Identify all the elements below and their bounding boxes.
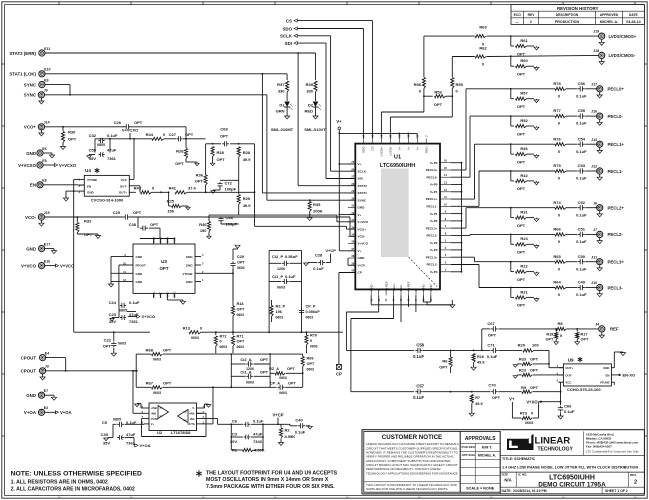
svg-text:DESCRIPTION: DESCRIPTION	[556, 13, 579, 17]
svg-text:LVCM+: LVCM+	[380, 146, 384, 156]
ground E17	[45, 248, 54, 250]
svg-text:0.1uF: 0.1uF	[313, 266, 324, 271]
capacitor C49	[566, 287, 577, 289]
capacitor CP_A	[278, 386, 280, 388]
svg-text:V+VCO: V+VCO	[358, 220, 369, 224]
ground U2 V- pin	[202, 407, 205, 409]
svg-text:OPT: OPT	[307, 362, 315, 366]
svg-text:GND: GND	[424, 146, 428, 154]
svg-text:R31: R31	[520, 210, 528, 215]
svg-text:0.56uF: 0.56uF	[285, 254, 298, 259]
svg-text:47uF: 47uF	[107, 148, 117, 153]
net V+VCXO stub	[43, 164, 55, 166]
svg-text:C55: C55	[578, 108, 586, 113]
svg-text:LVDS/CMOS+: LVDS/CMOS+	[609, 34, 637, 39]
date row	[500, 486, 644, 488]
svg-text:R25: R25	[167, 199, 175, 204]
svg-text:U9: U9	[568, 357, 574, 362]
wire U1 bottom GND	[370, 295, 372, 304]
svg-text:GND: GND	[136, 272, 144, 276]
ground U1 bottom	[451, 300, 453, 305]
svg-text:V+OA: V+OA	[140, 443, 151, 448]
resistor R9	[522, 390, 532, 393]
svg-text:0805: 0805	[97, 143, 105, 147]
svg-text:V+XO: V+XO	[526, 399, 538, 404]
wire V-CP stub	[348, 264, 355, 266]
LED D2 RED	[313, 102, 319, 108]
svg-text:R6: R6	[442, 358, 448, 363]
svg-text:OPT: OPT	[159, 266, 168, 271]
svg-text:J17: J17	[591, 82, 597, 86]
svg-text:47uF: 47uF	[253, 431, 263, 436]
svg-text:PECL0-: PECL0-	[426, 175, 437, 179]
svg-text:N/A: N/A	[504, 477, 511, 482]
svg-text:LTC Confidential-For Customer: LTC Confidential-For Customer Use Only	[586, 449, 639, 453]
svg-text:VCO-: VCO-	[25, 215, 37, 220]
wire Ci_P column left	[268, 250, 270, 332]
svg-text:SDI: SDI	[358, 177, 363, 181]
footprint note star	[198, 470, 200, 473]
ground J9	[40, 98, 42, 101]
svg-text:OPT: OPT	[287, 367, 295, 371]
capacitor CP_P	[301, 308, 303, 310]
svg-text:PECL1+: PECL1+	[608, 142, 625, 147]
svg-text:SML-010MT: SML-010MT	[271, 127, 294, 132]
svg-text:APPROVED: APPROVED	[600, 13, 619, 17]
resistor R35	[308, 202, 311, 212]
svg-text:V+: V+	[509, 397, 515, 402]
svg-text:CVCSO-914-1000: CVCSO-914-1000	[91, 198, 124, 203]
svg-text:V+VCO: V+VCO	[142, 314, 156, 319]
svg-text:C22: C22	[104, 338, 112, 343]
svg-text:Ci2_P: Ci2_P	[272, 254, 283, 259]
svg-text:Ci2_A: Ci2_A	[240, 357, 251, 362]
svg-text:0603: 0603	[191, 336, 199, 340]
svg-text:C24: C24	[109, 300, 117, 305]
svg-text:0.1uF: 0.1uF	[564, 409, 575, 414]
svg-text:V+: V+	[407, 146, 411, 150]
resistor R32	[76, 216, 78, 218]
svg-text:R32: R32	[84, 219, 92, 224]
svg-text:7361: 7361	[129, 319, 139, 324]
svg-text:U2: U2	[157, 430, 163, 435]
capacitor C55	[566, 115, 577, 117]
resistor R36	[204, 175, 207, 185]
ground R60	[536, 66, 538, 67]
ground C29 top	[235, 245, 240, 248]
capacitor C66	[560, 402, 562, 406]
svg-text:GND: GND	[186, 264, 194, 268]
svg-text:100pF: 100pF	[226, 221, 238, 226]
svg-text:IC NO.: IC NO.	[518, 473, 527, 477]
svg-text:0: 0	[531, 411, 533, 416]
svg-text:V+: V+	[398, 146, 402, 150]
svg-text:RZ_P: RZ_P	[276, 305, 286, 309]
wire OUT+ row	[152, 191, 169, 193]
ground C72	[212, 189, 214, 192]
resistor R73	[511, 406, 513, 419]
svg-text:V+P3: V+P3	[430, 248, 438, 252]
svg-text:37.4: 37.4	[188, 186, 197, 191]
ground E7	[45, 394, 54, 396]
resistor R41	[175, 191, 187, 194]
svg-text:1206: 1206	[277, 267, 285, 271]
svg-text:APP ENG.: APP ENG.	[462, 453, 476, 457]
svg-text:0603: 0603	[306, 316, 314, 320]
svg-text:0.1uF: 0.1uF	[107, 133, 118, 138]
svg-text:R37: R37	[277, 82, 285, 87]
svg-text:03/28/2014, 01:19 PM: 03/28/2014, 01:19 PM	[513, 489, 547, 493]
svg-text:EN: EN	[87, 184, 91, 188]
resistor R2	[280, 424, 282, 427]
wire R62 row J18	[452, 56, 474, 58]
U2 right pins	[197, 407, 202, 409]
wire C57 row	[423, 391, 451, 393]
resistor R8	[556, 327, 566, 330]
svg-text:V+: V+	[358, 249, 362, 253]
svg-text:R9: R9	[521, 385, 527, 390]
wire C68 row	[209, 214, 239, 216]
resistor R69	[301, 357, 304, 367]
ground D1	[286, 112, 288, 116]
svg-text:J6: J6	[593, 201, 597, 205]
svg-text:OPT: OPT	[163, 381, 172, 386]
ground J15	[40, 220, 42, 223]
svg-text:R44: R44	[146, 132, 154, 137]
capacitor C29	[232, 268, 234, 300]
svg-text:0.1uF: 0.1uF	[576, 176, 587, 181]
svg-text:R19: R19	[546, 333, 553, 337]
svg-text:196: 196	[276, 310, 282, 314]
svg-text:C52: C52	[578, 200, 586, 205]
ground R21	[536, 298, 538, 299]
svg-text:R60: R60	[520, 58, 528, 63]
ground C28	[308, 262, 311, 264]
svg-text:J14: J14	[44, 121, 50, 125]
svg-text:330: 330	[278, 89, 285, 94]
svg-text:SYNC: SYNC	[24, 82, 37, 87]
svg-text:OPT: OPT	[581, 338, 589, 342]
svg-text:R35: R35	[313, 202, 321, 207]
svg-text:R26: R26	[176, 149, 184, 154]
svg-text:4.99K: 4.99K	[285, 434, 296, 439]
svg-text:R74: R74	[553, 200, 561, 205]
svg-text:J9: J9	[44, 89, 48, 93]
svg-text:OPT: OPT	[517, 186, 526, 191]
svg-text:V+VCXO: V+VCXO	[18, 163, 37, 168]
svg-text:0.1uF: 0.1uF	[129, 300, 140, 305]
svg-text:0603: 0603	[220, 345, 228, 349]
svg-text:SHEET 1 OF 2: SHEET 1 OF 2	[605, 489, 628, 493]
resistor R56	[422, 78, 425, 89]
svg-text:OPT: OPT	[545, 338, 553, 342]
svg-text:VTUNE: VTUNE	[87, 178, 97, 182]
svg-text:R53: R53	[434, 89, 442, 94]
svg-text:GND: GND	[186, 255, 194, 259]
svg-text:PECL1-: PECL1-	[608, 169, 624, 174]
svg-text:SIZE: SIZE	[502, 473, 509, 477]
wire U3 VTUNE	[201, 272, 233, 274]
wire VTUNE column	[73, 300, 75, 332]
wire Ci_P column right	[301, 250, 303, 332]
svg-text:REV: REV	[528, 13, 536, 17]
svg-text:V+P0: V+P0	[430, 183, 438, 187]
svg-text:U3: U3	[161, 259, 167, 264]
svg-text:GND: GND	[429, 284, 433, 292]
svg-text:C38: C38	[129, 222, 137, 227]
svg-text:R62: R62	[479, 46, 487, 51]
svg-text:GND: GND	[26, 151, 36, 156]
capacitor C38	[137, 217, 139, 228]
svg-text:R33: R33	[519, 357, 527, 362]
connector J16 PECL0-	[597, 113, 603, 119]
net V+CP	[330, 254, 332, 263]
svg-text:OPT: OPT	[134, 120, 143, 125]
svg-text:SDO: SDO	[362, 146, 366, 153]
wire bottom gnd2	[422, 295, 424, 302]
svg-text:PECL1-: PECL1-	[426, 205, 437, 209]
resistor R68	[152, 353, 163, 356]
svg-text:C40: C40	[295, 418, 303, 423]
svg-text:Fax: (408)434-0507: Fax: (408)434-0507	[586, 444, 612, 448]
wire D1 branch	[286, 74, 288, 80]
svg-text:V-: V-	[192, 406, 195, 410]
svg-text:PECL2+: PECL2+	[426, 226, 438, 230]
ground J13	[599, 147, 601, 150]
svg-text:OPT: OPT	[517, 223, 526, 228]
svg-text:EN: EN	[605, 373, 609, 377]
svg-text:0603: 0603	[310, 345, 318, 349]
svg-text:PECL0-: PECL0-	[608, 114, 624, 119]
svg-text:R42: R42	[520, 173, 528, 178]
svg-text:R70: R70	[310, 334, 317, 338]
svg-text:V+CP: V+CP	[325, 248, 336, 253]
svg-text:SDO: SDO	[282, 26, 292, 31]
svg-text:STAT2: STAT2	[358, 184, 368, 188]
svg-text:E17: E17	[44, 242, 50, 246]
ground C30	[108, 437, 113, 439]
svg-text:CS: CS	[371, 147, 375, 151]
svg-text:C67: C67	[487, 321, 495, 326]
svg-text:E11: E11	[44, 47, 50, 51]
svg-text:0.1uF: 0.1uF	[576, 266, 587, 271]
svg-text:GND: GND	[87, 191, 95, 195]
svg-text:0.1uF: 0.1uF	[295, 429, 306, 434]
svg-text:J7: J7	[593, 228, 597, 232]
connector J11 PECL3+	[597, 259, 603, 265]
resistor R70	[305, 335, 308, 345]
svg-text:100: 100	[532, 343, 539, 348]
connector J17 PECL0+	[597, 86, 603, 92]
svg-text:GND: GND	[186, 280, 194, 284]
svg-text:LVCM-: LVCM-	[389, 147, 393, 156]
wire U2 OUTA to R67 row	[202, 423, 214, 425]
resistor RZ_P	[270, 306, 273, 317]
ground J18	[601, 59, 603, 62]
svg-text:V+P1: V+P1	[430, 190, 438, 194]
wire LVCM- drop	[451, 96, 453, 117]
svg-text:GND: GND	[166, 237, 170, 243]
ground C66	[560, 415, 562, 416]
resistor R18	[231, 306, 234, 316]
resistor R24 shunt	[510, 234, 512, 244]
wire STAT2 row	[45, 52, 316, 54]
svg-text:EN: EN	[30, 183, 36, 188]
svg-text:RZ_A: RZ_A	[269, 367, 279, 371]
U3 bottom pins	[153, 293, 155, 298]
op-amp U1 LTC6950IUHH body	[355, 144, 440, 290]
svg-text:f+: f+	[377, 288, 381, 291]
svg-text:REF-: REF-	[399, 284, 403, 291]
svg-text:R66: R66	[553, 227, 561, 232]
svg-text:C68: C68	[226, 215, 234, 220]
svg-text:GND: GND	[358, 256, 366, 260]
svg-text:R68: R68	[146, 347, 154, 352]
svg-text:C29: C29	[237, 255, 244, 259]
svg-text:C59: C59	[89, 148, 97, 153]
wire CS	[297, 20, 372, 22]
svg-text:OPT: OPT	[195, 179, 204, 184]
svg-text:C51: C51	[578, 227, 586, 232]
resistor R29	[238, 180, 240, 194]
svg-text:C26: C26	[114, 120, 122, 125]
svg-text:V+P0: V+P0	[430, 161, 438, 165]
svg-text:SYNC: SYNC	[358, 198, 367, 202]
svg-text:OUT+: OUT+	[119, 191, 127, 195]
svg-text:OPT: OPT	[185, 132, 194, 137]
wire U3 left gnds	[111, 256, 127, 258]
wire E4 to J3 row	[46, 357, 66, 359]
resistor R63	[475, 35, 486, 38]
capacitor C50	[566, 261, 577, 263]
svg-text:R16: R16	[477, 355, 484, 359]
resistor R65	[511, 261, 555, 263]
svg-text:J13: J13	[591, 138, 597, 142]
svg-text:J3: J3	[45, 365, 49, 369]
ground E6	[43, 152, 52, 154]
title row	[500, 454, 644, 456]
svg-text:E7: E7	[44, 389, 48, 393]
svg-text:E9: E9	[44, 78, 48, 82]
svg-text:-INB: -INB	[151, 412, 156, 416]
ground R24	[536, 245, 538, 246]
resistor R38	[211, 147, 214, 157]
svg-text:R28: R28	[243, 150, 251, 155]
svg-text:0603: 0603	[276, 316, 284, 320]
svg-text:R56: R56	[414, 82, 422, 87]
wire V+ rail	[338, 130, 340, 251]
resistor R39	[314, 81, 317, 92]
wire PECL2- from pin	[451, 234, 470, 236]
svg-text:EN-XO: EN-XO	[623, 373, 636, 378]
svg-text:KIM T.: KIM T.	[482, 446, 493, 450]
svg-text:R21: R21	[520, 289, 528, 294]
ground R19	[555, 340, 557, 343]
svg-text:SCALE = NONE: SCALE = NONE	[466, 486, 495, 490]
svg-text:MICHEL A.: MICHEL A.	[478, 454, 496, 458]
wire f+ to C58 row	[378, 295, 380, 312]
svg-text:0.1uF: 0.1uF	[576, 239, 587, 244]
resistor R42 shunt	[510, 171, 512, 181]
svg-text:OPT: OPT	[260, 357, 269, 362]
svg-text:V-CP: V-CP	[358, 263, 365, 267]
svg-text:V+CP: V+CP	[272, 412, 283, 417]
svg-text:R75: R75	[553, 163, 561, 168]
svg-text:200K: 200K	[313, 209, 323, 214]
resistor R60 shunt	[510, 56, 512, 66]
svg-text:J16: J16	[591, 110, 597, 114]
svg-text:V+VCXO: V+VCXO	[122, 128, 138, 133]
resistor R74	[511, 207, 555, 209]
U1 right pin stubs	[440, 162, 451, 164]
svg-text:R20: R20	[518, 343, 526, 348]
svg-text:VTUNE: VTUNE	[182, 272, 192, 276]
ground C22	[113, 352, 115, 353]
ground R38	[212, 162, 214, 163]
oscillator U3	[133, 244, 195, 293]
svg-text:0.1uF: 0.1uF	[576, 149, 587, 154]
svg-text:C5: C5	[102, 420, 108, 425]
svg-text:Ci1_P: Ci1_P	[272, 274, 283, 279]
svg-text:V+: V+	[358, 213, 362, 217]
svg-text:35V: 35V	[103, 440, 110, 445]
svg-text:OPT: OPT	[84, 232, 93, 237]
net V+VCO arrow	[127, 311, 136, 313]
svg-text:SCLK: SCLK	[358, 169, 367, 173]
svg-text:C28: C28	[315, 252, 323, 257]
resistor R66	[511, 233, 555, 235]
wire PECL2+ from pin	[451, 227, 466, 229]
resistor R75	[511, 170, 555, 172]
ground J19	[601, 39, 603, 42]
ground U2 +INB	[141, 407, 144, 409]
svg-text:V+P2: V+P2	[430, 241, 438, 245]
svg-text:OPT: OPT	[530, 357, 539, 362]
wire R20 to U9	[534, 349, 549, 351]
svg-text:Ci1_A: Ci1_A	[240, 370, 251, 375]
svg-text:0.1uF: 0.1uF	[576, 292, 587, 297]
svg-text:C32: C32	[89, 133, 97, 138]
svg-text:D2: D2	[308, 103, 314, 108]
resistor R55	[451, 78, 454, 89]
svg-text:STAT1: STAT1	[358, 191, 368, 195]
svg-text:2. ALL CAPACITORS ARE IN MICR: 2. ALL CAPACITORS ARE IN MICROFARADS, 04…	[11, 487, 135, 493]
wire R69 column	[302, 373, 304, 387]
revision history table	[511, 5, 644, 25]
capacitor C22	[113, 332, 115, 341]
svg-text:0.1uF: 0.1uF	[576, 93, 587, 98]
resistor R77	[511, 115, 555, 117]
Linear Technology logo	[507, 434, 534, 450]
wire PECL3+ from pin	[451, 256, 475, 258]
svg-text:VCO-: VCO-	[358, 235, 366, 239]
svg-text:OPT: OPT	[68, 137, 77, 142]
ground R61	[536, 46, 538, 47]
svg-text:V+P1: V+P1	[430, 212, 438, 216]
wire LVCM+ drop	[423, 96, 425, 112]
svg-text:GND: GND	[369, 284, 373, 292]
svg-text:REF: REF	[610, 327, 619, 332]
svg-text:R63: R63	[479, 25, 487, 30]
svg-text:C71: C71	[487, 343, 495, 348]
svg-text:V+P2: V+P2	[430, 219, 438, 223]
resistor R57 shunt	[510, 89, 512, 99]
svg-text:J12: J12	[591, 165, 597, 169]
svg-text:330: 330	[306, 89, 313, 94]
title block frame	[362, 430, 644, 494]
resistor R62	[475, 55, 486, 58]
svg-text:R71: R71	[237, 335, 244, 339]
